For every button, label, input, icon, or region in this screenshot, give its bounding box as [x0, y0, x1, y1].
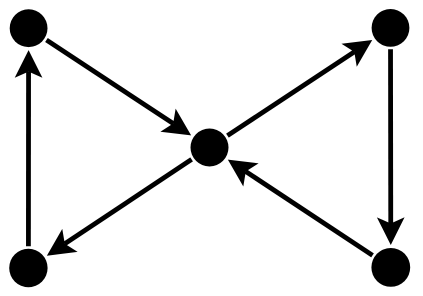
node TR — [372, 9, 410, 47]
arrowhead C->BL — [47, 229, 78, 256]
wire edge BR->C — [246, 172, 373, 256]
arrowhead BR->C — [228, 160, 259, 187]
node C — [191, 129, 229, 167]
arrowhead BL->TL — [15, 50, 43, 78]
wire edge BL->TL — [26, 72, 31, 247]
node BR — [371, 248, 410, 287]
arrowhead TR->BR — [377, 217, 405, 245]
node BL — [9, 249, 47, 287]
wire edge C->BL — [65, 159, 192, 243]
arrowhead C->TR — [341, 40, 372, 67]
wire edge TL->C — [46, 40, 173, 124]
arrowhead TL->C — [160, 109, 191, 136]
wire edge C->TR — [227, 52, 354, 136]
wire edge TR->BR — [388, 49, 393, 223]
node TL — [10, 9, 48, 47]
